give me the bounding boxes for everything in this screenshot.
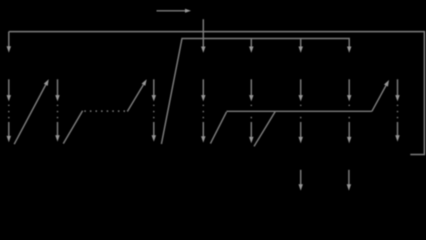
drop arrow from second rail (second) [299, 39, 303, 53]
column 5 lower dash-dot down arrow [249, 105, 253, 144]
second rail with rising diagonal at its left end [161, 39, 349, 145]
diagonal 4 rising from column 4 bottom to mid rail left corner [210, 112, 226, 144]
column 3 lower dash-dot down arrow [152, 105, 156, 142]
column 6 lower dash-dot down arrow [299, 105, 303, 144]
dotted plateau segment [84, 110, 127, 112]
arrow dropping from top rail left end [7, 32, 11, 53]
column 4 upper solid down arrow [201, 79, 205, 101]
diagonal arrow 1 (column 1 bottom up to column 2 top) [14, 79, 49, 144]
column 2 upper solid down arrow [55, 79, 59, 101]
column 6 upper solid down arrow [299, 79, 303, 101]
diagonal 2 rising from column 2 bottom to dotted plateau [63, 111, 82, 144]
diagonal arrow 2b (plateau up to column 3 top) [127, 79, 146, 111]
mid rail (solid horizontal) [227, 110, 372, 112]
column 4 lower dash-dot down arrow [201, 105, 205, 143]
bottom arrow below column 6 [299, 170, 303, 191]
column 8 lower dash-dot down arrow [395, 105, 399, 142]
column 1 upper solid down arrow [7, 79, 11, 101]
column 8 upper solid down arrow [395, 79, 399, 101]
column 2 lower dash-dot down arrow [55, 105, 59, 142]
arrowhead at second rail right corner drop [347, 47, 351, 53]
legend arrow (top, pointing right) [157, 9, 192, 13]
column 3 upper solid down arrow [152, 79, 156, 101]
bottom arrow below column 7 [347, 170, 351, 191]
drop arrow from second rail (first) [249, 39, 253, 53]
column 7 lower dash-dot down arrow [347, 105, 351, 144]
diagonal arrow 6 (mid rail right end up to column 8 top) [372, 80, 389, 111]
top rail with right-side bracket [9, 32, 425, 155]
through arrow crossing both rails [201, 19, 205, 53]
column 1 lower dash-dot down arrow [7, 105, 11, 143]
diagonal 5 rising from column 5 bottom to mid rail [254, 111, 275, 146]
column 5 upper solid down arrow [249, 79, 253, 101]
column 7 upper solid down arrow [347, 79, 351, 101]
